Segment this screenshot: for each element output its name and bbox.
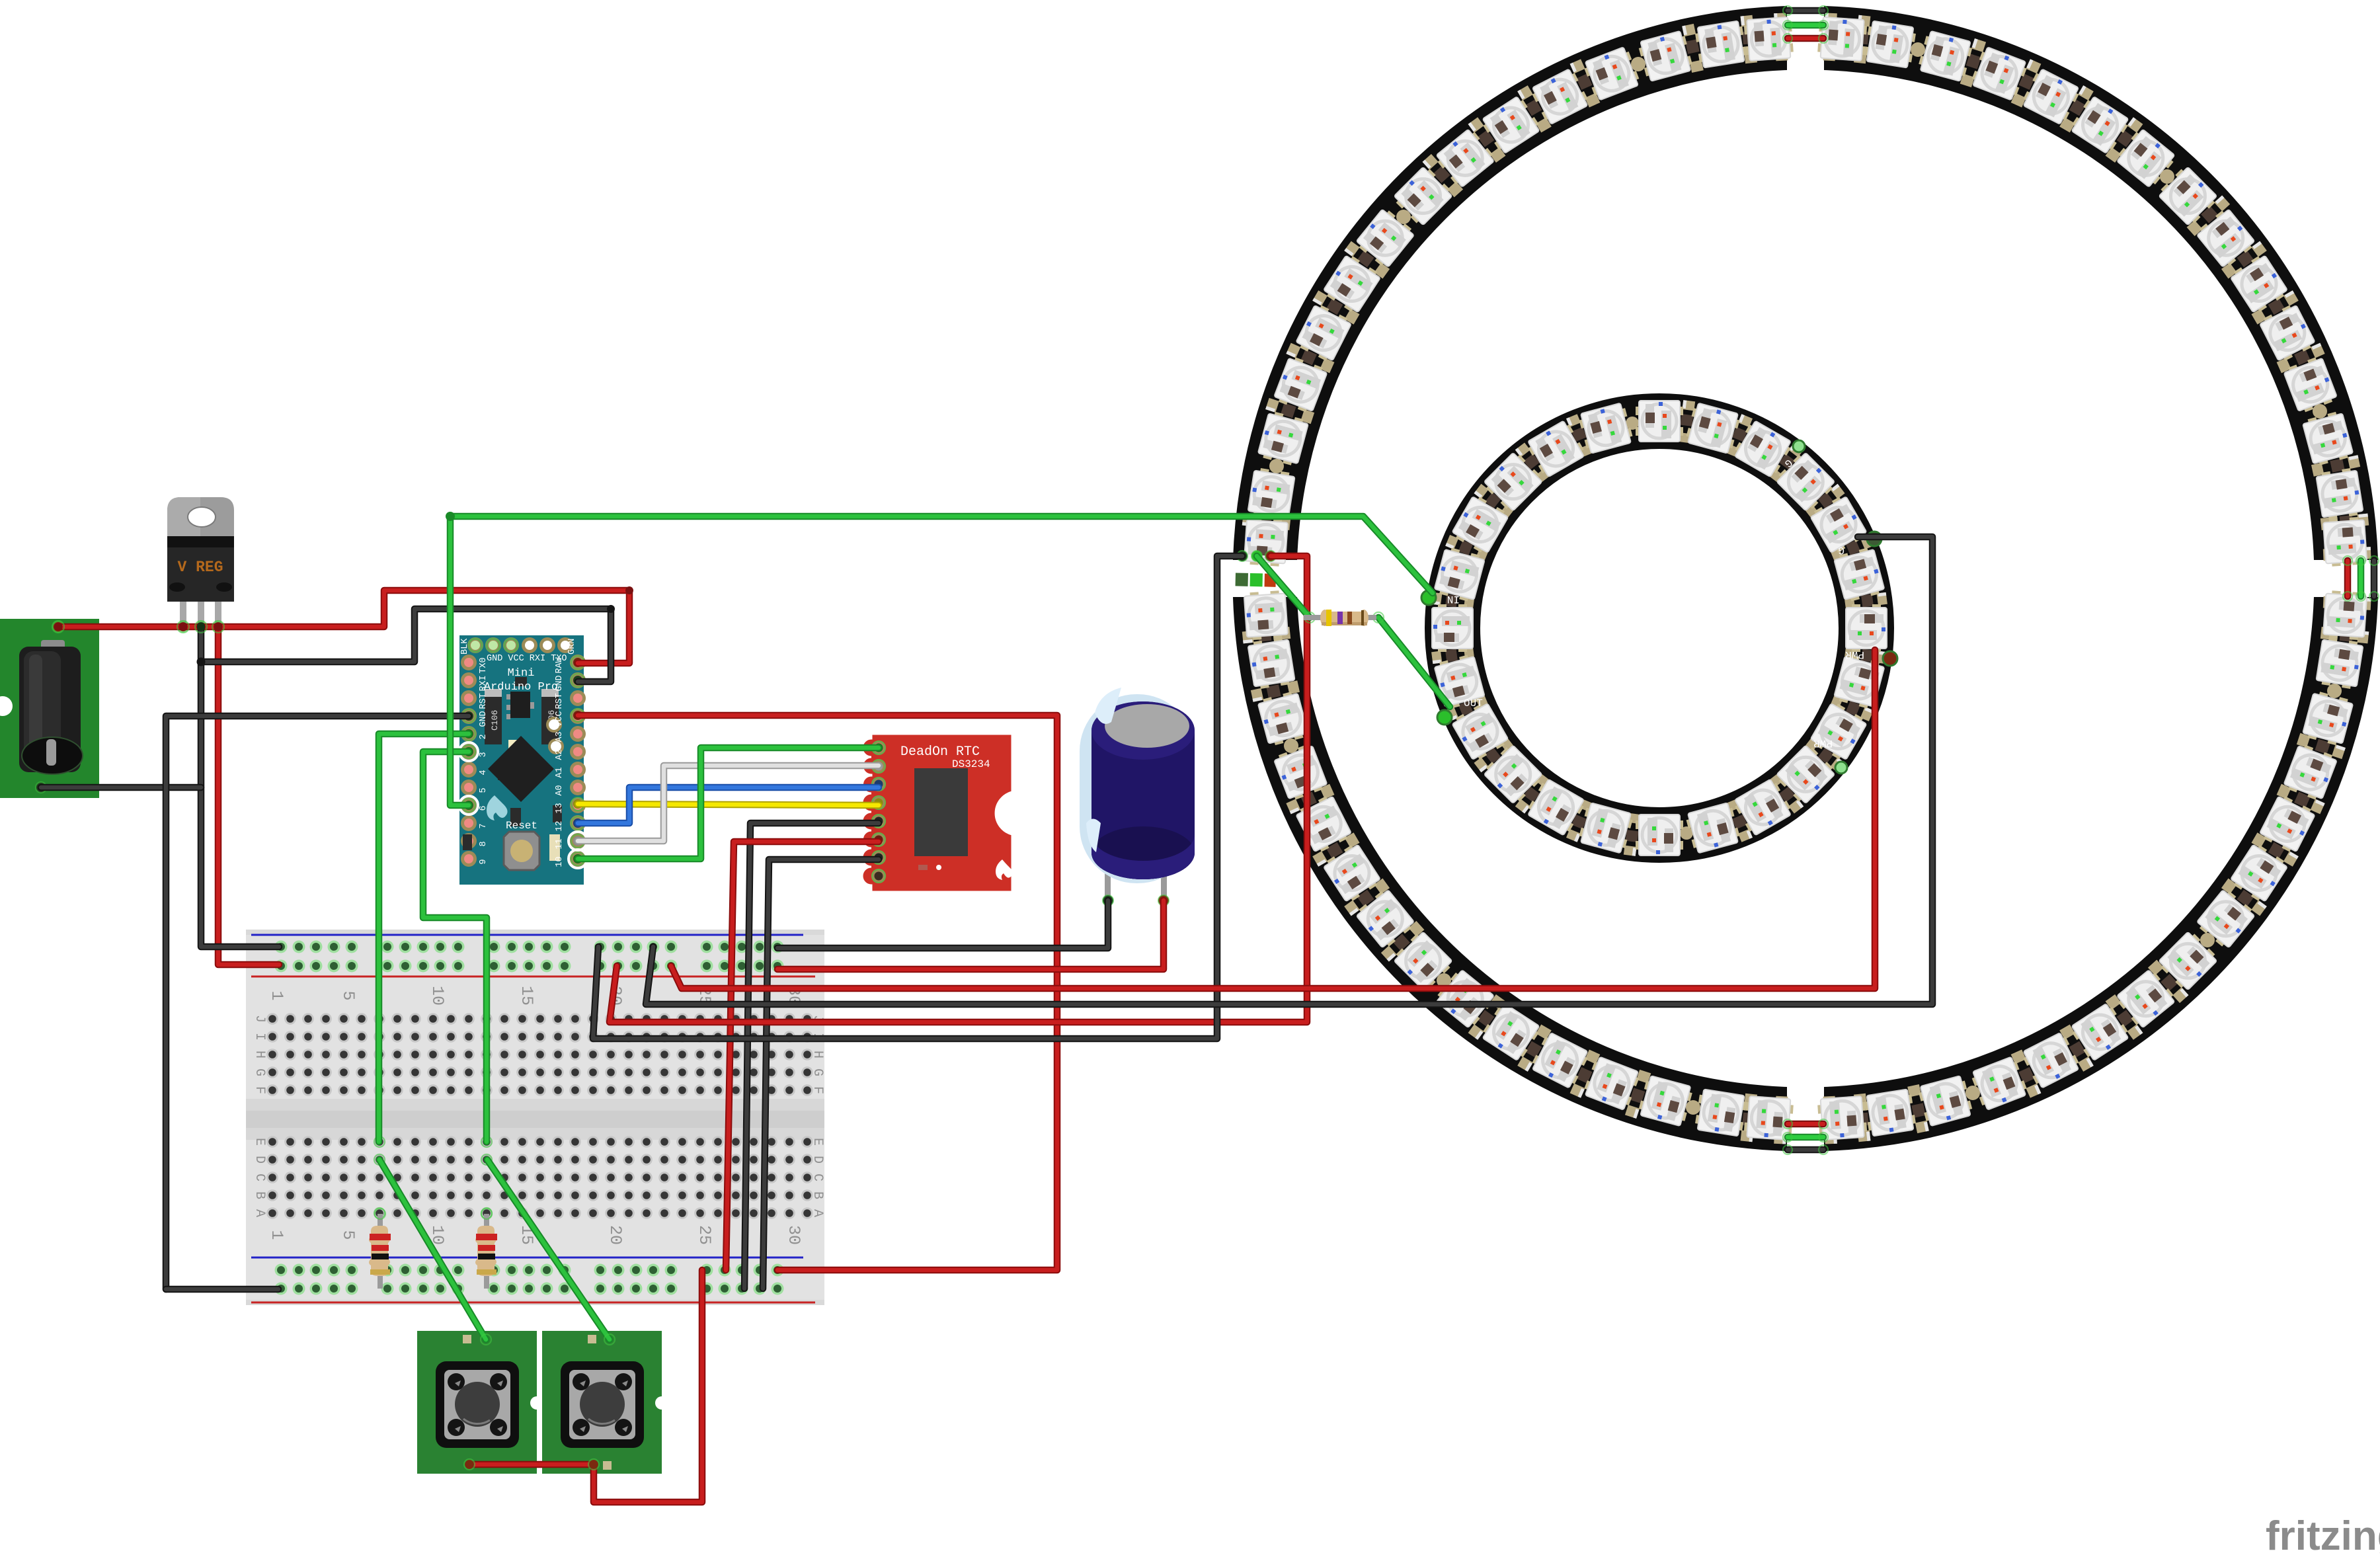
outer ring LED D19	[1582, 46, 1641, 101]
inner ring LED E11	[1450, 494, 1510, 555]
outer ring LED D59	[2316, 637, 2363, 690]
inner ring LED E16	[1482, 743, 1544, 806]
svg-text:BLK: BLK	[460, 638, 470, 655]
inner ring LED E14	[1433, 653, 1486, 710]
inner ring LED E10	[1482, 450, 1544, 513]
outer ring LED D41	[1529, 1031, 1590, 1090]
outer ring LED D8	[2157, 165, 2219, 227]
voltage regulator VREG (TO-220)	[167, 497, 234, 632]
svg-text:30: 30	[784, 1225, 803, 1245]
outer ring LED D34	[1273, 742, 1328, 801]
inner ring LED E17	[1525, 777, 1587, 837]
electrolytic capacitor C1	[1080, 688, 1195, 906]
top rail blue line	[251, 934, 803, 936]
svg-text:H: H	[252, 1051, 267, 1058]
jumper black right	[2371, 561, 2378, 596]
outer ring LED D49	[1969, 1056, 2028, 1111]
top rail red line	[251, 976, 815, 978]
svg-text:12: 12	[555, 820, 565, 831]
outer ring LED D18	[1637, 30, 1694, 83]
svg-text:Arduino Pro: Arduino Pro	[484, 681, 558, 694]
svg-text:13: 13	[555, 803, 565, 813]
wire black jack gnd	[41, 784, 201, 791]
outer ring LED D42	[1582, 1056, 1641, 1111]
wire black arduino GND left to bottom rail	[166, 716, 469, 1289]
svg-text:5: 5	[479, 787, 489, 793]
bottom rail red line	[251, 1302, 815, 1304]
svg-text:A1: A1	[555, 767, 565, 777]
outer ring LED D56	[2258, 793, 2317, 854]
outer ring LED D25	[1322, 253, 1382, 315]
power rail holes	[275, 941, 288, 953]
svg-text:H: H	[810, 1051, 825, 1058]
outer ring LED D51	[2069, 1002, 2131, 1062]
inner ring LED E8	[1577, 402, 1634, 454]
svg-text:2: 2	[479, 734, 489, 739]
outer ring LED D11	[2020, 67, 2081, 126]
inner ring LED E2	[1833, 546, 1885, 603]
jumper green right	[2358, 561, 2365, 596]
outer ring LED D40	[1480, 1002, 1542, 1062]
junction VREG leg3	[214, 623, 223, 631]
LED indicator	[508, 740, 522, 750]
outer ring end pads (wired)	[1237, 551, 1248, 561]
junction black corner	[607, 605, 615, 613]
wire green col13 to button2	[487, 1160, 610, 1339]
svg-text:A2: A2	[555, 749, 565, 760]
svg-text:GND VCC RXI TXO: GND VCC RXI TXO	[487, 654, 567, 664]
capacitor C106 right	[541, 689, 559, 744]
outer ring LED D54	[2195, 887, 2256, 950]
junction black gnd tee	[197, 658, 206, 666]
svg-text:J: J	[252, 1015, 267, 1023]
outer ring LED D17	[1694, 20, 1748, 68]
wire red inner ring power	[671, 650, 1875, 988]
inner ring LED E20	[1685, 802, 1741, 854]
wire red RTC vcc to bottom rail	[726, 842, 879, 1270]
outer ring LED D16	[1743, 17, 1794, 61]
inner ring LED E15	[1450, 701, 1510, 762]
outer ring LED D45	[1743, 1096, 1794, 1140]
wire red VREG out to top rail+	[218, 627, 279, 965]
wire red cap to top rail+	[777, 900, 1164, 969]
outer ring LED D26	[1294, 302, 1353, 363]
jumper black top	[1788, 7, 1823, 15]
outer ring LED D39	[1434, 968, 1497, 1029]
inner ring LED E22	[1774, 743, 1837, 806]
outer ring LED D21	[1480, 95, 1542, 155]
svg-text:GRN: GRN	[567, 639, 577, 655]
junction VREG leg1	[179, 623, 188, 631]
junction jack tip	[54, 623, 63, 631]
SparkFun flame on board	[487, 795, 508, 820]
capacitor C106 left	[485, 689, 502, 744]
wire yellow pin13 to RTC	[578, 804, 879, 805]
outer ring LED D15	[1817, 17, 1868, 61]
inner ring spare pad PWR	[1835, 762, 1847, 774]
svg-text:3: 3	[479, 752, 489, 757]
outer ring LED D36	[1322, 842, 1382, 904]
wire black to bottom rail-	[166, 1286, 278, 1293]
outer ring LED D53	[2157, 930, 2219, 992]
inner ring LED E12	[1433, 546, 1486, 603]
svg-text:25: 25	[695, 1225, 714, 1245]
svg-text:A: A	[810, 1209, 825, 1217]
svg-text:5: 5	[338, 1230, 358, 1240]
svg-text:E: E	[252, 1138, 267, 1146]
svg-text:G: G	[252, 1068, 267, 1076]
svg-text:D: D	[810, 1156, 825, 1164]
svg-text:8: 8	[479, 841, 489, 846]
inner ring spare pad G	[1793, 440, 1805, 452]
outer ring LED D7	[2195, 207, 2256, 270]
svg-text:10: 10	[428, 986, 447, 1006]
used breadboard holes	[374, 1136, 385, 1147]
inner ring LED E19	[1636, 815, 1683, 856]
svg-text:RST: RST	[555, 693, 565, 709]
DC barrel jack J1	[0, 619, 99, 798]
svg-text:C: C	[252, 1174, 267, 1181]
outer ring LED D31	[1244, 590, 1289, 641]
wire white pin11 to RTC	[578, 766, 879, 841]
junction red RAW corner	[625, 586, 633, 594]
svg-text:4: 4	[479, 770, 489, 775]
inner ring LED E21	[1732, 777, 1794, 837]
breadboard hole grid	[266, 1013, 278, 1025]
outer ring LED D4	[2283, 355, 2338, 414]
wire red outer ring power	[610, 556, 1307, 1022]
outer ring LED D48	[1917, 1075, 1974, 1127]
outer ring LED D52	[2114, 968, 2177, 1029]
outer ring LED D27	[1273, 355, 1328, 414]
breadboard labels	[252, 986, 825, 1245]
outer ring LED D12	[1969, 46, 2028, 101]
outer ring LED D10	[2069, 95, 2131, 155]
outer ring LED D37	[1355, 887, 1416, 950]
wire red VCC to bottom rail+	[578, 715, 1057, 1270]
small passive	[498, 760, 508, 780]
svg-text:1: 1	[267, 990, 286, 1000]
inner ring pad G	[1867, 532, 1882, 546]
inner ring pad PWR	[1883, 651, 1897, 666]
svg-text:C: C	[810, 1174, 825, 1181]
svg-text:C106: C106	[490, 710, 500, 731]
jumper green bottom	[1788, 1134, 1823, 1141]
svg-text:DeadOn RTC: DeadOn RTC	[900, 744, 980, 760]
outer ring LED D1	[2323, 516, 2367, 567]
svg-text:15: 15	[517, 986, 536, 1006]
inner ring LED E6	[1685, 402, 1741, 454]
outer ring LED D35	[1294, 793, 1353, 854]
Reset button	[504, 832, 539, 870]
inner ring solder pads	[1844, 592, 1887, 610]
wire green pin3 to breadboard col13	[423, 752, 487, 1142]
pushbutton module S2	[542, 1331, 668, 1474]
wire black VREG gnd to top rail-	[201, 627, 279, 947]
passives lower	[510, 808, 521, 826]
svg-text:F: F	[252, 1086, 267, 1094]
inner ring LED E4	[1774, 450, 1837, 513]
outer ring LED D55	[2229, 842, 2289, 904]
outer ring start pads (rect)	[1236, 573, 1276, 586]
wire green pin10 to RTC	[578, 748, 879, 859]
outer ring LED D32	[1248, 637, 1296, 690]
inner ring pad IN	[1421, 590, 1436, 605]
junction VREG leg2	[197, 623, 206, 631]
svg-text:D: D	[252, 1156, 267, 1164]
wire black inner ring gnd	[646, 537, 1932, 1004]
outer ring LED D44	[1694, 1089, 1748, 1137]
svg-text:5: 5	[338, 990, 358, 1000]
svg-text:PWR: PWR	[1813, 737, 1833, 749]
svg-text:VCC: VCC	[555, 711, 565, 727]
inner ring LED E3	[1809, 494, 1868, 555]
svg-text:Reset: Reset	[506, 820, 537, 832]
outer ring LED D33	[1257, 690, 1310, 747]
svg-text:6: 6	[479, 805, 489, 811]
svg-text:9: 9	[479, 859, 489, 864]
inner ring LED E1	[1846, 604, 1887, 652]
svg-text:A3: A3	[555, 731, 565, 742]
outer ring LED D28	[1257, 410, 1310, 467]
inner ring labels	[1447, 456, 1864, 749]
inner ring LED E23	[1809, 701, 1868, 762]
outer ring LED D60	[2323, 590, 2367, 641]
inner ring LED E5	[1732, 419, 1794, 479]
bottom rail blue line	[251, 1257, 803, 1259]
svg-text:A0: A0	[555, 785, 565, 795]
svg-text:E: E	[810, 1138, 825, 1146]
outer ring LED D50	[2020, 1031, 2081, 1090]
svg-text:RST: RST	[479, 693, 489, 709]
svg-text:G: G	[810, 1068, 825, 1076]
outer ring LED D30	[1244, 516, 1289, 567]
svg-text:PWR: PWR	[1845, 649, 1864, 660]
svg-text:I: I	[252, 1033, 267, 1041]
DeadOn RTC DS3234 U3	[862, 734, 1013, 892]
outer ring LED D24	[1355, 207, 1416, 270]
inner ring LED E24	[1833, 653, 1885, 710]
jumper green top	[1788, 22, 1823, 29]
resistor R3 330ohm	[1304, 610, 1376, 626]
outer ring LED D5	[2258, 302, 2317, 363]
breadboard	[246, 930, 824, 1305]
outer ring LED D14	[1864, 20, 1917, 68]
svg-text:B: B	[252, 1191, 267, 1199]
wire red buttons to bottom rail+	[469, 1270, 702, 1502]
svg-text:10: 10	[555, 856, 565, 867]
wire black RTC gnd2 to bottom rail	[763, 859, 879, 1289]
NeoPixel ring 60 (outer) band	[1265, 38, 2346, 1119]
regulator SOT-23	[510, 692, 530, 718]
jumper red top	[1788, 35, 1823, 42]
svg-text:7: 7	[479, 823, 489, 828]
outer ring LED D23	[1392, 165, 1454, 227]
button2 lower pad	[603, 1461, 612, 1470]
resistor R2 220ohm	[475, 1214, 497, 1289]
wire black cap to top rail-	[777, 900, 1108, 948]
wire green col7 to button1	[379, 1160, 486, 1339]
inner ring LED E9	[1525, 419, 1587, 479]
outer ring LED D9	[2114, 128, 2177, 189]
wire black gnd to arduino GND right	[201, 609, 611, 682]
inner ring pad OUT	[1437, 710, 1452, 725]
svg-text:G: G	[1838, 544, 1844, 556]
outer ring LED D2	[2316, 467, 2363, 521]
outer ring LED D46	[1817, 1096, 1868, 1140]
svg-text:1: 1	[267, 1230, 286, 1240]
junction green corner	[446, 512, 455, 521]
svg-text:fritzing: fritzing	[2266, 1513, 2380, 1555]
inner ring LED E18	[1577, 802, 1634, 854]
outer ring solder pads	[2320, 514, 2369, 530]
jumper red right	[2344, 561, 2352, 596]
wire black RTC gnd to bottom rail	[744, 823, 879, 1289]
wire green pin6 to inner ring IN	[450, 516, 1433, 805]
svg-text:OUT: OUT	[1464, 698, 1483, 709]
jumper black bottom	[1788, 1146, 1823, 1154]
outer ring LED D13	[1917, 30, 1974, 83]
wire green outer ring data to resistor	[1257, 556, 1310, 618]
wire red jack to VREG to RAW	[58, 590, 629, 663]
svg-text:11: 11	[555, 838, 565, 849]
inner ring LED E7	[1636, 401, 1683, 442]
outer ring LED D22	[1434, 128, 1497, 189]
NeoPixel ring 24 (inner) band	[1452, 421, 1866, 835]
svg-text:F: F	[810, 1086, 825, 1094]
wire blue pin12 to RTC	[578, 787, 879, 823]
jumper red bottom	[1788, 1121, 1823, 1128]
mounting holes	[546, 717, 562, 733]
inner ring LED E13	[1432, 604, 1473, 652]
svg-text:GND: GND	[479, 711, 489, 727]
resistor R1 220ohm	[369, 1214, 391, 1289]
outer ring LED D38	[1392, 930, 1454, 992]
svg-text:IN: IN	[1447, 593, 1460, 605]
outer ring LED D43	[1637, 1075, 1694, 1127]
pushbutton module S1	[417, 1331, 543, 1474]
outer ring LED D47	[1864, 1089, 1917, 1137]
outer ring LED D57	[2283, 742, 2338, 801]
wire black outer ring gnd	[593, 556, 1242, 1039]
wire green resistor to inner ring OUT	[1378, 618, 1450, 707]
outer ring LED D20	[1529, 67, 1590, 126]
outer ring LED D29	[1248, 467, 1296, 521]
outer ring LED D6	[2229, 253, 2289, 315]
Arduino Pro Mini U1	[459, 635, 587, 885]
ATmega IC U2	[488, 736, 554, 802]
svg-text:20: 20	[606, 1225, 625, 1245]
svg-text:V REG: V REG	[177, 559, 223, 576]
outer ring LED D58	[2302, 690, 2354, 747]
wire green pin2 to breadboard col7	[379, 734, 469, 1142]
svg-text:A: A	[252, 1209, 267, 1217]
svg-text:Mini: Mini	[508, 667, 535, 680]
outer ring LED D3	[2302, 410, 2354, 467]
svg-text:B: B	[810, 1191, 825, 1199]
